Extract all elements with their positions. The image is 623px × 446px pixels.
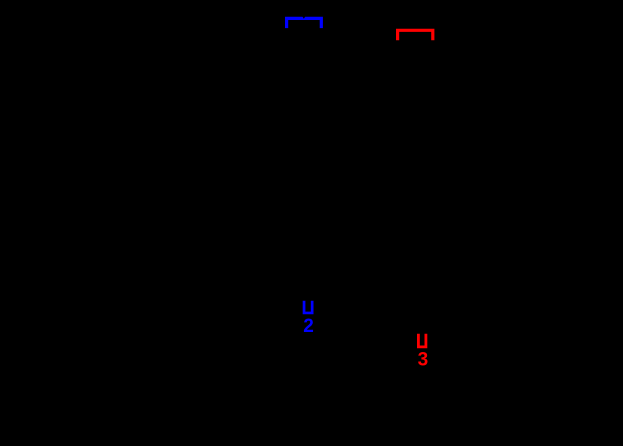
svg-text:3: 3 — [418, 350, 429, 371]
blue top bracket (repeat-unit marker, upper) — [287, 18, 322, 28]
red top bracket (repeat-unit marker, upper) — [398, 30, 433, 40]
black bond notch crossing blue top bracket — [302, 16, 305, 19]
red bottom bracket (repeat-unit marker, lower) — [418, 334, 426, 347]
svg-text:2: 2 — [303, 316, 314, 337]
blue bottom bracket (repeat-unit marker, lower) — [304, 301, 312, 313]
